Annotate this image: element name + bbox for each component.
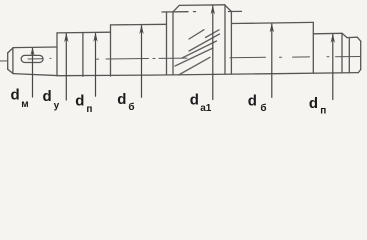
top edge of d_u / d_p sections (57, 31, 111, 34)
svg-text:б: б (128, 101, 134, 113)
arrow d_b right (271, 24, 273, 97)
left stub top-left chamfer (8, 48, 14, 53)
keyway slot (stadium) (21, 55, 43, 62)
svg-text:у: у (54, 101, 60, 112)
right stub inner vertical (348, 38, 350, 73)
boundary V9 (341, 33, 343, 73)
arrow d_b left (141, 26, 143, 98)
right stub top-left chamfer (342, 33, 347, 37)
boundary V8 (312, 22, 314, 73)
top edge d_p right (313, 32, 342, 35)
hatching line 6 (short, upper) (206, 30, 220, 38)
gear left chamfer (173, 5, 179, 11)
gear left outer face V4 (166, 12, 168, 75)
arrow d_p left (95, 33, 97, 96)
left stub bottom-left chamfer (8, 69, 14, 73)
left stub inner vertical (chamfer foot) (12, 48, 14, 74)
boundary V1 (56, 33, 58, 76)
right stub bottom-right chamfer (358, 70, 360, 73)
top edge d_b right (231, 22, 313, 23)
svg-text:б: б (260, 102, 266, 114)
top edge d_b left (111, 23, 167, 26)
hatching line 3 (175, 48, 213, 66)
svg-text:d: d (75, 93, 84, 110)
hatching line 4 (to baseline) (179, 57, 211, 75)
arrow d_a1 (212, 6, 214, 100)
svg-text:d: d (190, 91, 199, 108)
gear left shoulder top (162, 11, 188, 13)
right stub top edge (347, 36, 357, 38)
svg-text:п: п (86, 104, 92, 115)
dimension arrows (31, 5, 336, 100)
hatching line 2 (182, 41, 217, 58)
pitch line right dash (229, 10, 242, 12)
right stub right edge (360, 41, 362, 69)
svg-text:d: d (117, 91, 126, 108)
left stub top edge (13, 46, 57, 49)
gear right outer face V7 (230, 12, 232, 75)
svg-text:d: d (43, 88, 52, 105)
svg-text:d: d (248, 93, 257, 110)
svg-text:d: d (11, 86, 20, 103)
hatching line 5 (short, upper) (189, 30, 204, 39)
left stub d_m: left edge (7, 53, 9, 70)
centerline axis (dash-dot) (0, 57, 360, 62)
gear left inner face V5 (172, 12, 174, 75)
pitch line dot (194, 11, 196, 13)
svg-text:а1: а1 (200, 103, 212, 114)
arrow d_u (65, 34, 67, 100)
right stub top-right chamfer (357, 37, 360, 41)
gear right inner face V6 (224, 5, 226, 74)
arrow d_p right (332, 34, 334, 99)
gear cap top edge (179, 4, 224, 7)
arrow d_m (32, 48, 34, 97)
divider V2 (82, 33, 84, 77)
hatching line 1 (189, 34, 220, 51)
boundary V3 (110, 25, 112, 76)
svg-text:d: d (309, 95, 318, 112)
gear right chamfer (225, 5, 232, 12)
baseline (bottom of shaft) (13, 73, 358, 76)
svg-text:м: м (21, 99, 28, 110)
svg-text:п: п (320, 106, 326, 117)
